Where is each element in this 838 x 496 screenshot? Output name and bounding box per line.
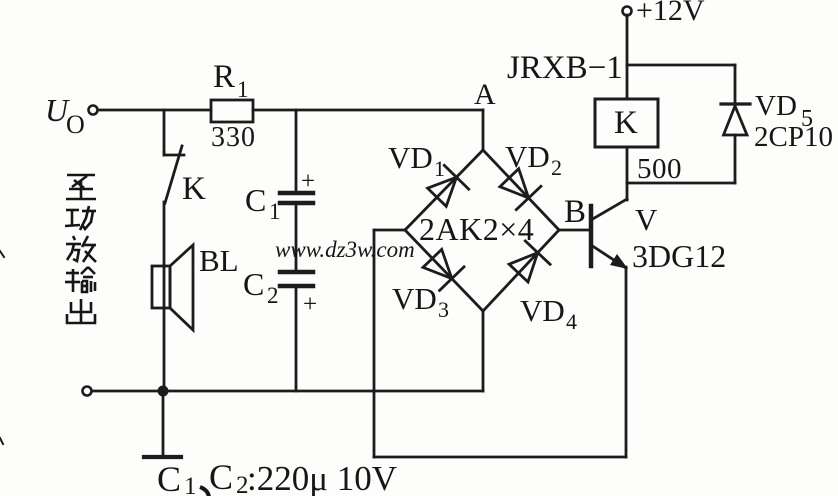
wire bottom rail — [92, 390, 483, 393]
diode VD3 — [423, 249, 464, 290]
svg-text:C: C — [157, 459, 181, 496]
svg-text:R: R — [213, 59, 235, 95]
switch K — [164, 146, 184, 203]
wire bottom branch VD5 to collector — [627, 182, 735, 185]
wire switch to speaker — [163, 202, 166, 266]
svg-text:C: C — [243, 266, 264, 302]
svg-text:2AK2×4: 2AK2×4 — [419, 211, 534, 247]
svg-text:330: 330 — [211, 122, 256, 153]
svg-text:www.dz3w.com: www.dz3w.com — [275, 237, 415, 262]
wire speaker to bottom rail — [163, 308, 166, 391]
svg-text:K: K — [614, 105, 638, 141]
wire +12V drop — [626, 15, 629, 99]
caption C1 C2 220u 10V — [157, 457, 397, 496]
svg-text:2CP10: 2CP10 — [754, 121, 833, 153]
transistor V emitter with arrow — [591, 245, 628, 269]
ground — [144, 455, 181, 459]
transistor V body bar — [589, 206, 594, 266]
relay coil box K — [595, 99, 658, 147]
wire VD5 branch vertical top — [734, 65, 737, 105]
edge artifact marks — [0, 251, 4, 444]
node bottom-left terminal circle — [83, 387, 92, 396]
wire between C1 C2 — [295, 204, 298, 271]
wire base B — [559, 229, 590, 232]
svg-text::220μ 10V: :220μ 10V — [247, 459, 397, 496]
svg-text:A: A — [474, 78, 496, 111]
svg-text:BL: BL — [199, 243, 239, 278]
svg-text:3DG12: 3DG12 — [632, 238, 726, 274]
svg-text:VD: VD — [392, 281, 437, 316]
svg-text:+: + — [303, 291, 317, 318]
svg-text:B: B — [564, 194, 586, 230]
wire to ground — [162, 391, 165, 456]
wire top branch to VD5 — [627, 64, 735, 67]
resistor R1 — [211, 100, 253, 122]
svg-text:+12V: +12V — [636, 0, 705, 27]
svg-text:4: 4 — [566, 309, 577, 334]
caption dun-comma — [200, 487, 209, 496]
text 输 — [65, 267, 95, 292]
svg-text:2: 2 — [267, 283, 279, 308]
svg-text:1: 1 — [269, 199, 281, 224]
svg-text:K: K — [182, 171, 206, 207]
svg-text:+: + — [301, 168, 315, 195]
speaker BL — [152, 245, 193, 330]
wire bridge bottom vertex to rail — [482, 311, 485, 391]
wire VD5 branch vertical bottom — [734, 135, 737, 183]
transistor V collector — [591, 147, 627, 220]
capacitor C1 — [280, 193, 313, 203]
svg-text:1: 1 — [184, 473, 197, 496]
svg-text:VD: VD — [388, 140, 433, 175]
diode VD2 — [500, 169, 541, 210]
svg-text:O: O — [66, 110, 85, 139]
text 功 — [65, 206, 96, 230]
wire C branch drop — [295, 110, 298, 192]
diode VD4 — [509, 241, 550, 282]
wire bridge left vertex to outer loop — [374, 230, 626, 457]
svg-text:VD: VD — [505, 139, 550, 174]
svg-text:VD: VD — [520, 293, 565, 328]
svg-text:3: 3 — [438, 297, 449, 322]
svg-text:2: 2 — [551, 155, 562, 180]
node Uo terminal circle — [89, 106, 98, 115]
node +12V terminal circle — [623, 7, 632, 16]
diode VD5 — [721, 104, 750, 135]
node A drop wire — [482, 110, 485, 150]
svg-text:C: C — [209, 457, 233, 496]
svg-text:1: 1 — [434, 156, 445, 181]
wire top rail left — [98, 109, 211, 112]
wire C2 to bottom rail — [295, 287, 298, 391]
svg-text:JRXB−1: JRXB−1 — [507, 50, 623, 86]
text 出 — [67, 299, 95, 323]
svg-text:VD: VD — [755, 90, 797, 122]
svg-text:V: V — [635, 202, 658, 237]
wire bridge diamond edges — [405, 150, 559, 311]
diode VD1 — [428, 165, 469, 206]
wire K branch drop — [163, 110, 166, 152]
svg-text:1: 1 — [237, 77, 249, 102]
text 放 — [66, 236, 96, 262]
svg-text:500: 500 — [637, 153, 682, 185]
junction dot bottom rail / BL branch — [158, 386, 169, 397]
svg-text:C: C — [245, 182, 266, 218]
text 至 (vertical Chinese: to power amp output) — [66, 175, 96, 199]
wire top rail right of R1 — [253, 109, 483, 112]
capacitor C2 — [280, 272, 313, 286]
